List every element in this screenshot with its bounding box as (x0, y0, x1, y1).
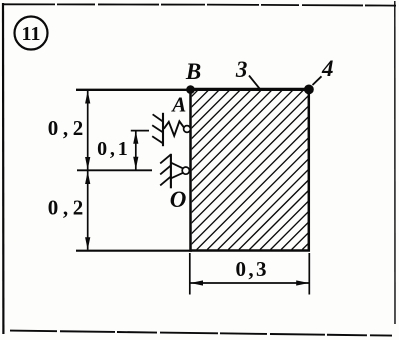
arrow down at middle line (85, 157, 90, 170)
arrow up at middle line (85, 171, 90, 184)
frame top border (3, 4, 396, 5)
svg-text:3: 3 (235, 57, 248, 82)
node B dot (186, 85, 195, 94)
node 4 dot (304, 85, 314, 95)
spring zigzag (164, 121, 184, 136)
leader line for label 3 (249, 76, 260, 89)
dimension 0,2 upper: vertical line (87, 91, 89, 170)
hinge pivot ring O (182, 167, 189, 174)
hinge wall hatch tick 3 (160, 176, 171, 185)
hatched rectangle body (38, 89, 399, 251)
spring support wall (162, 113, 164, 146)
arrow down at bottom line (85, 237, 90, 250)
dimension 0,1: top tick line (131, 130, 149, 132)
middle reference line (77, 169, 152, 171)
arrow left of 0,3 (190, 280, 203, 285)
hatching (38, 90, 399, 249)
dimension 0,1 vertical line (135, 131, 137, 170)
hinge support wall (170, 154, 172, 189)
arrow up at 0,1 top (133, 131, 138, 144)
dimension 0,2 lower: vertical line (87, 171, 89, 250)
spring wall hatch tick 2 (152, 125, 163, 132)
spring end attachment ring (184, 126, 191, 133)
hinge bracket upper arm (171, 163, 183, 169)
dimension 0,3 right extension line (308, 253, 310, 295)
hinge wall hatch tick 2 (160, 165, 171, 174)
svg-text:O: O (170, 187, 187, 212)
svg-text:11: 11 (22, 23, 41, 45)
arrow down at 0,1 bottom (133, 157, 138, 170)
frame left border (2, 3, 5, 334)
arrow right of 0,3 (296, 280, 309, 285)
svg-text:0,2: 0,2 (48, 116, 88, 140)
frame right border (394, 1, 396, 324)
figure number circle 11 (15, 17, 48, 50)
svg-text:A: A (170, 93, 186, 117)
arrow up at top line (85, 91, 90, 104)
svg-text:0,1: 0,1 (97, 138, 130, 160)
leader line for label 4 (313, 76, 322, 85)
spring wall hatch tick 3 (152, 136, 163, 143)
dimension 0,3 left extension line (189, 253, 191, 295)
spring wall hatch tick 1 (153, 114, 163, 121)
hinge bracket lower arm (171, 173, 183, 178)
top reference line (76, 89, 309, 91)
frame bottom border (10, 331, 392, 336)
hinge wall hatch tick 1 (160, 154, 171, 163)
svg-text:B: B (185, 59, 201, 84)
svg-text:4: 4 (321, 56, 334, 81)
svg-text:0,2: 0,2 (48, 195, 88, 219)
bottom reference line (76, 250, 192, 252)
svg-text:0,3: 0,3 (235, 257, 268, 281)
dimension 0,3 line (191, 282, 309, 284)
